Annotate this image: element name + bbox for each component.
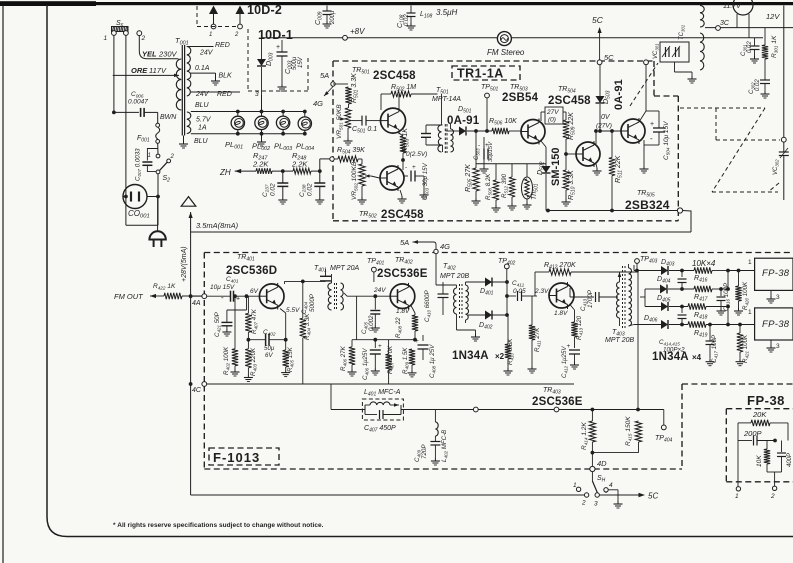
svg-text:1: 1 (209, 32, 212, 38)
svg-text:* All rights reserve specifica: * All rights reserve specifications sudj… (113, 522, 324, 529)
svg-text:4G: 4G (440, 242, 450, 251)
svg-text:+: + (650, 121, 654, 128)
svg-text:R406 27K: R406 27K (340, 345, 348, 371)
svg-text:2: 2 (770, 493, 775, 500)
svg-text:VR502 100KB: VR502 100KB (351, 161, 359, 200)
svg-text:R407 47K: R407 47K (251, 308, 259, 334)
svg-text:C503: C503 (474, 148, 481, 160)
svg-text:BLK: BLK (219, 73, 233, 80)
svg-text:ORE: ORE (131, 66, 148, 75)
svg-text:C416 100P: C416 100P (723, 282, 731, 311)
svg-text:ZH: ZH (219, 168, 231, 177)
svg-text:1: 1 (104, 35, 108, 42)
svg-text:2SC458: 2SC458 (373, 70, 416, 82)
svg-text:6: 6 (121, 23, 124, 29)
svg-text:0.02: 0.02 (747, 41, 753, 53)
svg-text:5C: 5C (592, 15, 604, 25)
svg-text:3.5mA(8mA): 3.5mA(8mA) (196, 221, 239, 230)
svg-text:0.05: 0.05 (513, 288, 526, 295)
svg-text:(27V): (27V) (596, 123, 612, 130)
svg-text:3C: 3C (720, 20, 730, 27)
svg-text:0A-91: 0A-91 (613, 79, 625, 110)
svg-text:0.02: 0.02 (755, 79, 761, 91)
svg-text:-: - (221, 293, 224, 302)
svg-text:10K×4: 10K×4 (692, 259, 716, 268)
svg-text:FP-38: FP-38 (762, 319, 790, 330)
svg-text:2SB324: 2SB324 (625, 198, 670, 212)
svg-text:R512 390: R512 390 (501, 173, 509, 198)
svg-text:0V: 0V (601, 114, 611, 121)
svg-text:0(2.5V): 0(2.5V) (406, 151, 427, 158)
svg-text:0.02: 0.02 (404, 14, 410, 26)
svg-text:5C: 5C (648, 492, 658, 501)
svg-text:0.002: 0.002 (368, 315, 375, 331)
svg-text:2: 2 (170, 154, 175, 160)
svg-text:R411 27K: R411 27K (534, 327, 542, 352)
svg-text:R420 100K: R420 100K (742, 281, 750, 310)
svg-text:-: - (405, 164, 407, 171)
svg-text:50μ: 50μ (264, 345, 275, 352)
svg-text:(0): (0) (548, 117, 556, 124)
svg-text:R409 1.5K: R409 1.5K (402, 347, 410, 374)
svg-text:24V: 24V (195, 91, 210, 98)
svg-text:20K: 20K (752, 410, 767, 419)
svg-text:0.02: 0.02 (270, 183, 277, 196)
svg-text:4G: 4G (313, 99, 323, 108)
svg-text:-: - (650, 134, 653, 143)
svg-text:VR501 50KB: VR501 50KB (336, 104, 344, 139)
svg-text:5000P: 5000P (309, 293, 316, 312)
svg-text:2: 2 (234, 32, 239, 38)
svg-text:2SC536E: 2SC536E (377, 268, 428, 280)
svg-text:+28V(5mA): +28V(5mA) (181, 246, 188, 282)
svg-text:5A: 5A (400, 238, 409, 247)
svg-text:24V: 24V (373, 287, 386, 294)
svg-text:10μ 15V: 10μ 15V (210, 284, 235, 291)
svg-text:2SB54: 2SB54 (502, 92, 539, 104)
svg-text:TR1-1A: TR1-1A (457, 67, 504, 81)
svg-text:TC301: TC301 (679, 24, 686, 40)
svg-text:0.1A: 0.1A (195, 65, 210, 72)
svg-text:4A: 4A (192, 300, 201, 307)
svg-text:R415 150K: R415 150K (625, 416, 633, 446)
svg-text:3: 3 (255, 91, 259, 98)
svg-text:1700P: 1700P (587, 289, 594, 308)
svg-text:3.5μH: 3.5μH (436, 8, 458, 17)
svg-text:+: + (276, 44, 280, 51)
svg-text:R410 6.8K: R410 6.8K (507, 338, 515, 365)
svg-text:2SC458: 2SC458 (548, 95, 591, 107)
svg-text:117V: 117V (149, 66, 167, 75)
svg-text:RED: RED (215, 42, 230, 49)
svg-text:200P: 200P (743, 429, 762, 438)
svg-text:C421 50P: C421 50P (214, 311, 222, 337)
svg-text:1: 1 (748, 259, 752, 266)
svg-text:12V: 12V (766, 12, 780, 21)
svg-text:0A-91: 0A-91 (447, 115, 480, 127)
svg-text:200μ: 200μ (330, 10, 336, 25)
svg-text:5A: 5A (320, 71, 329, 80)
svg-text:1: 1 (573, 482, 577, 489)
svg-text:1.8V: 1.8V (396, 308, 410, 315)
svg-text:MPT 20B: MPT 20B (605, 337, 635, 344)
svg-text:R405 15K: R405 15K (287, 346, 295, 372)
svg-text:SM-150: SM-150 (550, 147, 562, 186)
svg-text:R403 220K: R403 220K (250, 347, 258, 376)
svg-text:F-1013: F-1013 (213, 450, 260, 465)
svg-text:+: + (378, 343, 382, 350)
svg-text:4: 4 (609, 482, 613, 489)
svg-text:+8V: +8V (350, 27, 365, 36)
svg-text:C417 100P: C417 100P (711, 334, 719, 363)
svg-text:2: 2 (141, 35, 146, 42)
svg-text:2SC458: 2SC458 (381, 209, 424, 221)
svg-text:R421 100K: R421 100K (742, 334, 750, 363)
svg-text:+: + (412, 164, 416, 171)
svg-text:1A: 1A (198, 125, 207, 132)
svg-text:4C: 4C (192, 387, 202, 394)
svg-text:FP-38: FP-38 (747, 393, 785, 408)
svg-text:720P: 720P (421, 444, 428, 459)
svg-text:RED: RED (217, 91, 232, 98)
svg-text:5.5V: 5.5V (286, 307, 300, 314)
svg-text:3: 3 (776, 343, 780, 350)
svg-text:FP-38: FP-38 (762, 268, 790, 279)
svg-text:4D: 4D (597, 459, 607, 468)
svg-text:VC302: VC302 (773, 159, 780, 175)
svg-text:FM OUT: FM OUT (114, 292, 144, 301)
svg-text:6V: 6V (250, 288, 259, 295)
svg-text:230V: 230V (158, 50, 178, 59)
svg-text:2: 2 (581, 500, 586, 507)
svg-text:MPT-14A: MPT-14A (432, 96, 461, 103)
svg-text:×4: ×4 (692, 353, 702, 362)
svg-text:10K: 10K (756, 455, 763, 467)
svg-text:2SC536E: 2SC536E (532, 396, 583, 408)
svg-text:5.7V: 5.7V (196, 117, 212, 124)
svg-text:1N34A: 1N34A (452, 350, 489, 362)
svg-text:MPT 20B: MPT 20B (440, 273, 470, 280)
svg-text:1: 1 (148, 153, 151, 159)
svg-text:1.8V: 1.8V (554, 310, 568, 317)
svg-text:BLU: BLU (194, 138, 209, 145)
svg-text:2.3V: 2.3V (534, 288, 549, 295)
svg-text:MPT 20A: MPT 20A (330, 265, 360, 272)
svg-text:FM Stereo: FM Stereo (487, 48, 525, 57)
svg-text:10D-1: 10D-1 (258, 28, 293, 42)
svg-text:400P: 400P (787, 453, 793, 467)
svg-text:VC301: VC301 (653, 43, 660, 59)
svg-text:5C: 5C (604, 53, 614, 62)
svg-text:R414 1.2K: R414 1.2K (581, 422, 589, 450)
svg-text:R402 100K: R402 100K (223, 346, 231, 375)
svg-text:1N34A: 1N34A (652, 351, 689, 363)
svg-text:×2: ×2 (495, 352, 505, 361)
svg-text:0.0047: 0.0047 (128, 99, 148, 106)
svg-text:YEL: YEL (142, 50, 157, 59)
svg-text:30μ15V: 30μ15V (488, 141, 494, 162)
svg-text:BLU: BLU (195, 102, 210, 109)
svg-text:2.2K: 2.2K (291, 160, 308, 169)
svg-text:-: - (478, 142, 480, 149)
svg-text:27V: 27V (546, 109, 559, 116)
svg-text:3: 3 (776, 294, 780, 301)
svg-text:BWN: BWN (160, 114, 177, 121)
svg-text:0.02: 0.02 (307, 183, 314, 196)
svg-text:1: 1 (735, 493, 739, 500)
svg-text:15V: 15V (298, 56, 304, 68)
svg-text:10D-2: 10D-2 (247, 3, 282, 17)
svg-text:R508 8.2K: R508 8.2K (485, 173, 493, 200)
svg-text:2SC536D: 2SC536D (226, 265, 277, 277)
svg-text:3: 3 (594, 501, 598, 508)
svg-text:R404 3.3K: R404 3.3K (304, 313, 312, 340)
svg-text:24V: 24V (199, 50, 214, 57)
svg-text:+: + (415, 338, 419, 345)
svg-text:R413 120: R413 120 (576, 315, 584, 340)
svg-text:2.2K: 2.2K (252, 160, 269, 169)
svg-text:6V: 6V (265, 352, 273, 359)
svg-text:1: 1 (748, 309, 752, 316)
